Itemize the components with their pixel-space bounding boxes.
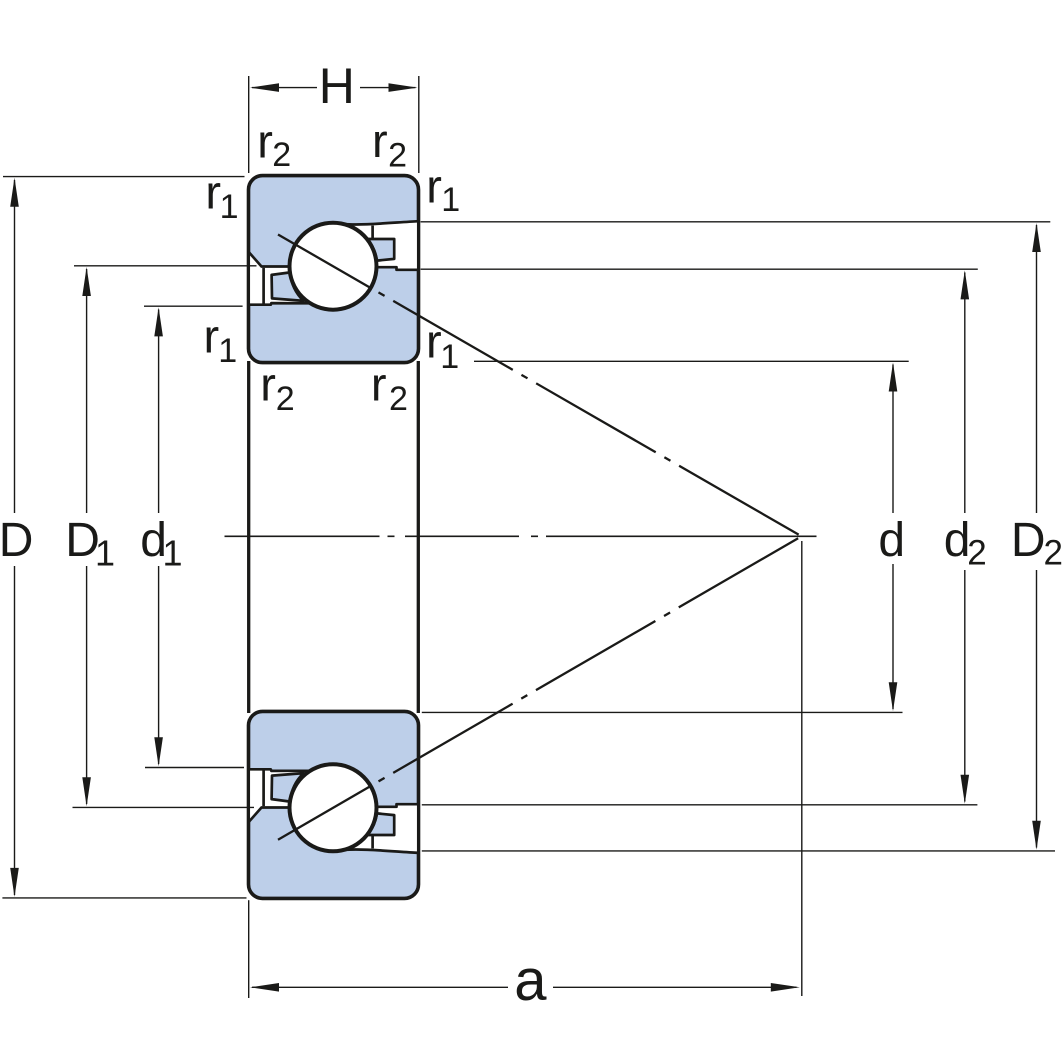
svg-text:a: a: [514, 948, 547, 1013]
dimension D2 top extension line: [421, 221, 1051, 223]
dimension D line: [14, 180, 16, 513]
dimension H extension line left: [248, 76, 250, 173]
contact angle line top (dash-dot to apex): [379, 292, 802, 536]
svg-text:1: 1: [218, 332, 237, 370]
contact angle line bottom (dash-dot to apex): [379, 536, 802, 781]
svg-text:r: r: [260, 358, 276, 411]
dimension d1 line: [158, 310, 160, 514]
a arrow left: [250, 983, 279, 992]
d arrow up: [889, 363, 898, 392]
contact angle line bottom (solid through ball): [278, 785, 372, 840]
svg-text:2: 2: [1044, 534, 1063, 573]
dimension D2 bottom extension line: [422, 850, 1055, 852]
svg-text:2: 2: [276, 380, 295, 418]
dimension D bottom extension line: [2, 897, 246, 899]
horizontal centerline: [225, 535, 817, 537]
a arrow right: [771, 983, 800, 992]
apex extension vertical for a: [801, 541, 803, 996]
dimension D top extension line: [3, 176, 245, 178]
svg-text:1: 1: [163, 533, 183, 574]
bore cylinder line right: [417, 361, 420, 713]
svg-text:r: r: [372, 114, 388, 167]
svg-text:d: d: [878, 514, 905, 567]
D1 arrow up: [82, 267, 91, 296]
dimension d1 top extension line: [144, 305, 243, 307]
left extension vertical for a: [248, 900, 250, 998]
svg-text:2: 2: [389, 380, 408, 418]
svg-text:r: r: [426, 315, 442, 368]
svg-text:1: 1: [440, 338, 459, 376]
d arrow down: [889, 682, 898, 711]
d1 arrow up: [154, 307, 163, 336]
dimension d bottom extension line: [422, 711, 903, 713]
d1 arrow down: [154, 737, 163, 766]
dimension D1 top extension line: [74, 265, 257, 267]
dimension d2 line: [964, 273, 966, 514]
d2 arrow down: [961, 775, 970, 804]
H arrow left: [250, 83, 279, 92]
dimension D1 bottom extension line: [73, 806, 255, 808]
D2 arrow down: [1032, 821, 1041, 850]
svg-text:1: 1: [441, 181, 460, 219]
svg-text:r: r: [371, 358, 387, 411]
contact angle line top (solid through ball): [278, 235, 372, 289]
svg-text:1: 1: [95, 533, 115, 574]
dimension d2 bottom extension line: [422, 804, 978, 806]
D2 arrow up: [1032, 223, 1041, 252]
dimension a line: [252, 986, 508, 988]
svg-text:D: D: [0, 514, 33, 567]
D arrow up: [10, 178, 19, 207]
svg-text:r: r: [257, 114, 273, 167]
bore cylinder line left: [247, 361, 250, 713]
dimension D1 line: [86, 269, 88, 513]
d2 arrow up: [961, 270, 970, 299]
svg-text:D: D: [1011, 514, 1046, 567]
dimension H extension line right: [418, 76, 420, 173]
D arrow down: [10, 868, 19, 897]
H arrow right: [389, 83, 418, 92]
D1 arrow down: [82, 777, 91, 806]
bottom bearing cross-section (mirror): [249, 711, 419, 898]
top bearing cross-section: [249, 176, 419, 363]
dimension d line: [892, 365, 894, 514]
svg-text:2: 2: [272, 136, 291, 174]
dimension d2 top extension line: [421, 268, 978, 270]
svg-text:r: r: [204, 309, 220, 362]
dimension H line: [252, 87, 317, 89]
svg-text:1: 1: [220, 188, 239, 226]
svg-text:2: 2: [967, 534, 986, 573]
svg-text:r: r: [426, 159, 442, 212]
dimension d top extension line: [474, 360, 909, 362]
svg-text:H: H: [319, 58, 355, 114]
dimension d1 bottom extension line: [145, 767, 244, 769]
dimension D2 line: [1036, 225, 1038, 513]
svg-text:2: 2: [388, 137, 407, 175]
